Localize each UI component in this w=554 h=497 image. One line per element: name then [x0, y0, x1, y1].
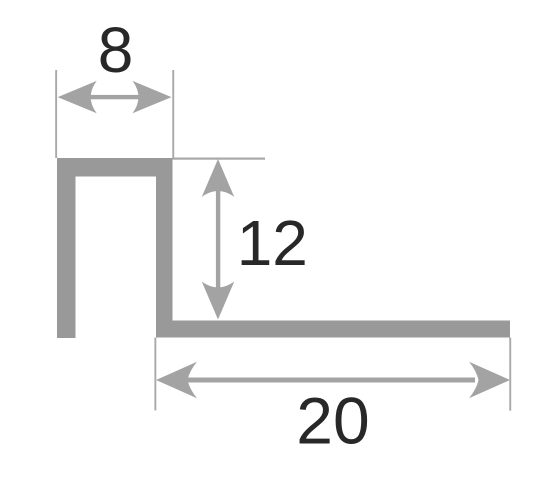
extension line right of dim 8	[172, 70, 174, 158]
svg-text:20: 20	[296, 383, 369, 457]
svg-text:12: 12	[237, 207, 308, 279]
dimension arrow for 20	[156, 362, 510, 398]
extension line left of dim 8	[55, 70, 57, 158]
extension line right of dim 20	[509, 338, 511, 411]
dimension arrow for 12	[202, 159, 234, 320]
profile body (tile trim cross-section)	[57, 158, 510, 338]
extension line top of dim 12	[172, 158, 265, 160]
svg-text:8: 8	[98, 14, 134, 86]
extension line left of dim 20	[154, 338, 156, 411]
dimension arrow for 8	[58, 81, 172, 113]
